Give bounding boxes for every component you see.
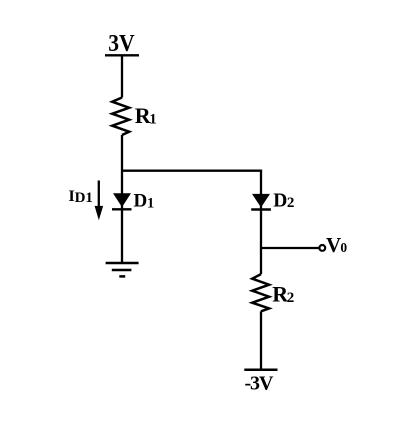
- svg-text:D: D: [273, 190, 287, 211]
- svg-text:0: 0: [340, 240, 347, 255]
- svg-text:V: V: [326, 233, 341, 257]
- svg-text:2: 2: [287, 195, 295, 211]
- svg-text:3V: 3V: [108, 30, 135, 56]
- svg-text:D1: D1: [75, 190, 93, 206]
- svg-text:-3V: -3V: [245, 373, 274, 395]
- svg-text:2: 2: [287, 290, 295, 306]
- svg-text:1: 1: [149, 112, 157, 128]
- svg-text:1: 1: [147, 195, 154, 211]
- svg-text:D: D: [134, 191, 148, 212]
